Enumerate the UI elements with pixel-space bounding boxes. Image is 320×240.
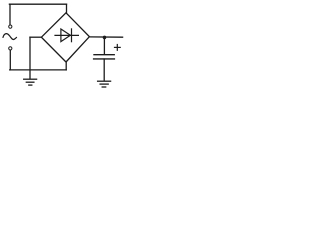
wire bbox=[89, 36, 122, 38]
wire bbox=[9, 4, 11, 25]
ground bbox=[24, 79, 37, 85]
wire bbox=[103, 59, 105, 80]
bridge rectifier bbox=[41, 13, 89, 62]
wire bbox=[66, 4, 68, 13]
diode D1 bbox=[55, 29, 78, 42]
AC source symbol bbox=[3, 34, 16, 40]
terminal bbox=[9, 47, 12, 50]
polarity label + bbox=[115, 45, 121, 51]
wire bbox=[9, 50, 11, 70]
wire bbox=[65, 62, 67, 70]
capacitor C1 bbox=[94, 55, 115, 59]
wire bbox=[103, 37, 105, 54]
junction bbox=[103, 36, 107, 40]
ground bbox=[98, 81, 111, 87]
terminal bbox=[9, 25, 12, 28]
wire bbox=[29, 37, 31, 78]
wire bbox=[30, 36, 41, 38]
wire bbox=[10, 69, 66, 71]
wire bbox=[9, 3, 66, 5]
